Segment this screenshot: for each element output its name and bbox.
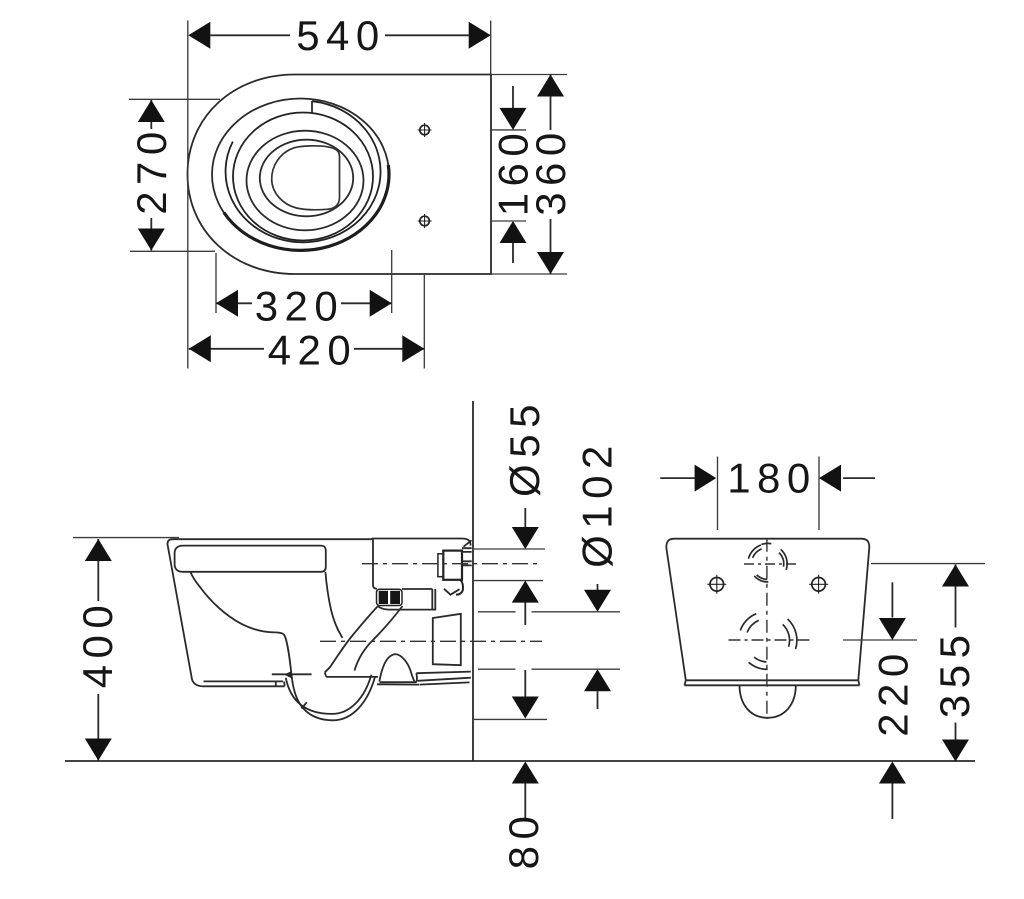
svg-text:360: 360 xyxy=(527,126,574,216)
svg-text:220: 220 xyxy=(869,647,916,737)
svg-text:80: 80 xyxy=(500,810,547,870)
svg-text:420: 420 xyxy=(268,326,358,373)
svg-text:270: 270 xyxy=(128,125,175,215)
svg-text:320: 320 xyxy=(255,282,345,329)
svg-text:180: 180 xyxy=(727,455,817,502)
svg-text:400: 400 xyxy=(74,599,121,689)
svg-text:Ø55: Ø55 xyxy=(501,398,548,497)
svg-text:540: 540 xyxy=(296,12,386,59)
svg-text:355: 355 xyxy=(931,629,978,719)
svg-text:Ø102: Ø102 xyxy=(574,439,621,568)
